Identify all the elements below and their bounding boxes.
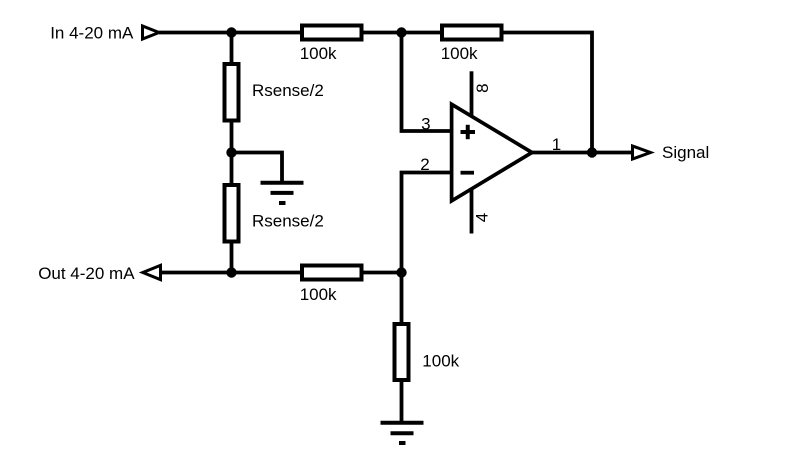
svg-text:100k: 100k — [300, 285, 337, 304]
junction node: top rail / Rsense divider — [226, 27, 236, 37]
junction node: output / feedback — [587, 147, 597, 157]
svg-text:2: 2 — [420, 155, 429, 174]
wire: bottom node up to op-amp pin 2 — [402, 173, 451, 273]
svg-text:100k: 100k — [422, 352, 459, 371]
wire top rail: input to R1 — [159, 31, 301, 35]
svg-text:100k: 100k — [441, 44, 478, 63]
junction node: bottom rail / Rsense divider — [226, 267, 236, 277]
signal port connector — [633, 146, 651, 159]
svg-text:Rsense/2: Rsense/2 — [252, 81, 324, 100]
resistor Rsense/2 upper (vertical) — [225, 64, 239, 121]
resistor R2 100k (horizontal, top right) — [442, 26, 502, 40]
wire top rail: R1 to R2 — [363, 31, 444, 35]
wire bottom rail: R3 to inverting node — [363, 271, 402, 275]
op-amp plus sign (non-inverting input marker) — [461, 125, 476, 139]
wire feedback: R2 right end to op-amp output node — [503, 33, 593, 153]
svg-text:In 4-20 mA: In 4-20 mA — [50, 23, 134, 42]
ground GND2 (below R4) — [381, 423, 424, 443]
wire: Rsense/2 upper to mid node — [230, 120, 234, 155]
resistor R1 100k (horizontal, top left) — [302, 26, 362, 40]
output port connector Out 4-20 mA — [143, 265, 161, 279]
input port connector In 4-20 mA — [143, 26, 160, 39]
wire: op-amp output to signal connector — [531, 151, 632, 155]
svg-text:3: 3 — [421, 114, 430, 133]
wire: R4 to ground — [400, 380, 404, 423]
wire: inverting node down to R4 — [400, 273, 404, 327]
wire: mid node to ground symbol — [232, 153, 283, 184]
resistor Rsense/2 lower (vertical) — [225, 185, 239, 242]
wire: top mid node down to op-amp pin 3 — [402, 33, 451, 132]
svg-text:Signal: Signal — [662, 143, 709, 162]
junction node: between R1 and R2 to op-amp +in — [396, 27, 406, 37]
junction node: inverting input / R4 — [396, 267, 406, 277]
op-amp power pin 8 stub — [470, 71, 474, 116]
wire: top node down to Rsense/2 upper — [230, 33, 234, 65]
wire: Rsense/2 lower to bottom rail — [230, 241, 234, 273]
resistor R3 100k (horizontal, bottom) — [302, 266, 362, 280]
svg-text:1: 1 — [552, 135, 561, 154]
op-amp U1 triangle body — [452, 104, 532, 201]
svg-text:4: 4 — [473, 213, 492, 222]
resistor R4 100k (vertical) — [395, 324, 409, 380]
svg-text:100k: 100k — [300, 44, 337, 63]
ground GND1 (at Rsense midpoint) — [261, 183, 304, 203]
svg-text:8: 8 — [473, 83, 492, 92]
wire bottom rail: output port to R3 — [161, 271, 302, 275]
op-amp power pin 4 stub — [470, 189, 474, 234]
op-amp minus sign (inverting input marker) — [461, 171, 475, 175]
svg-text:Rsense/2: Rsense/2 — [252, 212, 324, 231]
svg-text:Out 4-20 mA: Out 4-20 mA — [38, 264, 135, 283]
junction node: Rsense midpoint — [226, 147, 236, 157]
wire: mid node to Rsense/2 lower — [230, 153, 234, 188]
